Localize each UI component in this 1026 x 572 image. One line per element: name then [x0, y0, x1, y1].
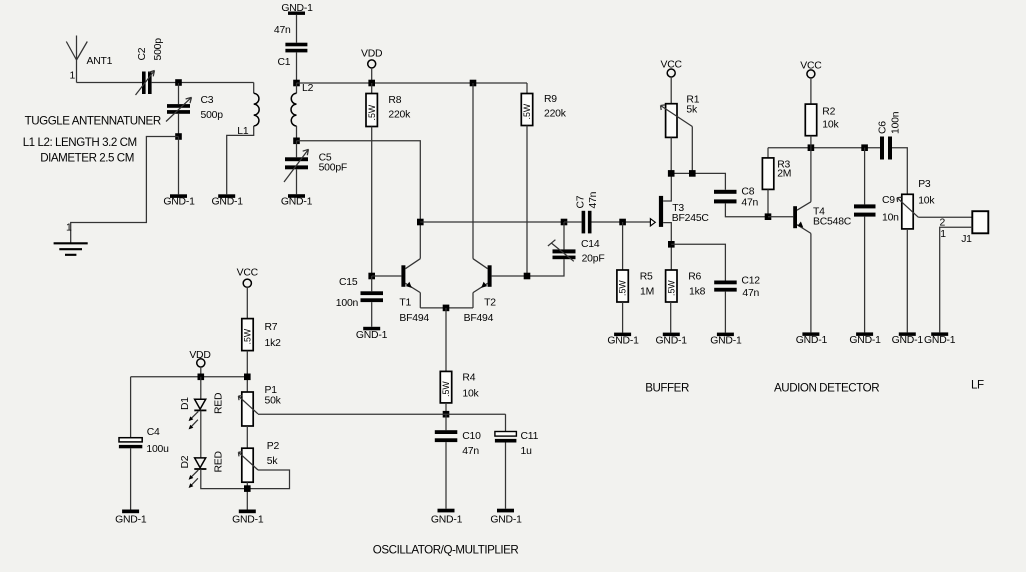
node T3 source / R6 / C12 — [668, 241, 675, 248]
node emitters / R4 — [443, 305, 450, 312]
svg-text:J1: J1 — [961, 234, 972, 245]
svg-text:5k: 5k — [686, 105, 698, 116]
svg-text:1: 1 — [66, 223, 72, 234]
svg-text:R7: R7 — [265, 322, 278, 333]
wire emitter rail — [420, 307, 473, 309]
svg-text:47n: 47n — [462, 446, 479, 457]
ground GND-1 (under C15) — [356, 327, 388, 341]
capacitor C11 1u (electrolytic) — [495, 414, 539, 457]
node T1 collector — [417, 219, 424, 226]
svg-text:C8: C8 — [741, 187, 754, 198]
svg-text:RED: RED — [214, 451, 225, 472]
wire VDD rail — [297, 82, 528, 84]
svg-text:GND-1: GND-1 — [849, 335, 881, 346]
wire T1 base — [372, 275, 402, 277]
svg-text:LF: LF — [971, 379, 984, 392]
svg-text:.5W: .5W — [618, 280, 628, 296]
ground GND-1 (under C10) — [431, 509, 463, 526]
svg-text:1: 1 — [940, 229, 946, 240]
wire VDD row to C4 — [130, 377, 132, 438]
capacitor C7 47n — [564, 191, 599, 233]
svg-text:10k: 10k — [462, 389, 479, 400]
capacitor C15 100n — [336, 276, 383, 309]
svg-text:R8: R8 — [388, 95, 401, 106]
connector J1 — [940, 211, 989, 245]
ground GND-1 (under C11) — [490, 509, 522, 526]
resistor R9 220k — [521, 83, 566, 126]
svg-text:220k: 220k — [388, 110, 411, 121]
svg-text:100u: 100u — [146, 444, 169, 455]
wire C6 to P3 — [892, 148, 907, 195]
wire L1 to GND — [227, 126, 254, 194]
svg-text:GND-1: GND-1 — [115, 515, 147, 526]
svg-text:R9: R9 — [544, 94, 557, 105]
svg-text:C15: C15 — [339, 277, 358, 288]
wire J1 pin1 to GND — [940, 227, 973, 332]
svg-text:220k: 220k — [544, 109, 567, 120]
svg-text:.5W: .5W — [367, 104, 377, 120]
svg-text:TUGGLE ANTENNATUNER: TUGGLE ANTENNATUNER — [25, 115, 161, 128]
ground GND-1 (under C4) — [115, 510, 147, 526]
wire C4 to GND — [130, 448, 132, 509]
svg-text:DIAMETER 2.5 CM: DIAMETER 2.5 CM — [40, 152, 134, 165]
svg-text:1u: 1u — [521, 446, 533, 457]
wire VDD row — [131, 376, 248, 378]
resistor R2 10k — [805, 78, 839, 136]
capacitor C14 20pF (trimmer) — [548, 222, 605, 265]
wire base node to T4 — [768, 216, 793, 218]
capacitor C2 500p (variable) — [136, 38, 165, 95]
ground GND-1 (above C1, inverted) — [281, 3, 313, 15]
wire R2 to rail — [810, 136, 812, 148]
node L2/C5 — [293, 138, 300, 145]
node R3 / C8 / T4 base — [765, 213, 772, 220]
transistor T1 BF494 — [399, 259, 429, 324]
wire T2 emitter down — [472, 293, 474, 308]
node T2 collector on rail — [470, 80, 477, 87]
supply VDD (top) — [361, 49, 382, 84]
node gate / R5 — [619, 219, 626, 226]
svg-text:.5W: .5W — [242, 328, 252, 344]
svg-text:R2: R2 — [822, 107, 835, 118]
wire C1 to VDD rail — [296, 52, 298, 83]
resistor R8 220k — [366, 83, 411, 127]
transistor T4 BC548C — [793, 202, 852, 234]
wire R6 to GND — [670, 302, 672, 333]
svg-text:C11: C11 — [521, 431, 539, 442]
LED D1 RED — [180, 393, 225, 430]
svg-text:R6: R6 — [688, 272, 701, 283]
ground GND-1 (under C9) — [849, 332, 881, 346]
LED D2 RED — [180, 451, 225, 488]
svg-text:L1 L2: LENGTH 3.2 CM: L1 L2: LENGTH 3.2 CM — [23, 136, 137, 149]
svg-text:D1: D1 — [180, 397, 191, 410]
svg-text:C4: C4 — [147, 427, 160, 438]
capacitor C12 47n — [714, 276, 760, 300]
capacitor C8 47n — [714, 187, 759, 209]
wire C15 to GND — [371, 302, 373, 327]
supply VCC (buffer) — [661, 60, 683, 78]
svg-text:P2: P2 — [267, 441, 280, 452]
svg-text:L2: L2 — [302, 83, 314, 94]
wire C5 to GND — [296, 169, 298, 194]
wire P2 bottom to GND — [246, 482, 248, 509]
wire C9 to GND — [864, 217, 866, 333]
svg-text:C3: C3 — [201, 95, 214, 106]
wire P2 wiper return — [248, 470, 290, 489]
supply VCC (audion) — [800, 60, 822, 78]
svg-text:C10: C10 — [462, 431, 481, 442]
ground GND-1 (under C3) — [163, 194, 195, 207]
svg-text:RED: RED — [214, 393, 225, 414]
node R4/C10/wiper — [443, 411, 450, 418]
wire C7 to T3 gate — [592, 221, 651, 223]
earth ground — [54, 243, 88, 255]
wire node B to earth — [71, 137, 179, 244]
capacitor C6 100n — [878, 111, 902, 159]
svg-text:C14: C14 — [581, 239, 600, 250]
svg-text:500pF: 500pF — [319, 163, 347, 174]
capacitor C1 47n — [274, 25, 308, 68]
svg-text:GND-1: GND-1 — [212, 197, 244, 208]
svg-text:AUDION DETECTOR: AUDION DETECTOR — [774, 382, 879, 395]
node VDD/R7/P1 — [244, 374, 251, 381]
wire R1 bottom / wiper to drain node — [671, 127, 725, 190]
potentiometer P2 5k — [238, 441, 279, 482]
svg-text:GND-1: GND-1 — [892, 335, 924, 346]
svg-text:BF245C: BF245C — [672, 213, 710, 224]
svg-text:BC548C: BC548C — [813, 216, 852, 227]
inductor L1 — [237, 83, 259, 138]
capacitor C5 500pF (variable) — [284, 141, 347, 182]
wire P3 wiper to J1 pin2 — [918, 216, 972, 218]
transistor T3 BF245C (JFET) — [650, 173, 709, 244]
svg-text:GND-1: GND-1 — [356, 330, 388, 341]
svg-text:47n: 47n — [742, 288, 759, 299]
ground GND-1 (under C5) — [281, 194, 313, 207]
antenna ANT1 — [66, 36, 112, 83]
svg-text:R5: R5 — [640, 272, 653, 283]
inductor L2 — [291, 83, 314, 141]
svg-text:1k8: 1k8 — [689, 287, 706, 298]
node R2 / T4 collector — [808, 144, 815, 151]
wire D1 to D2 — [200, 410, 202, 458]
svg-text:10n: 10n — [882, 213, 899, 224]
svg-text:GND-1: GND-1 — [232, 515, 264, 526]
ground GND-1 (under R6) — [656, 333, 688, 347]
svg-text:.5W: .5W — [441, 381, 451, 397]
svg-text:.5W: .5W — [522, 103, 532, 119]
wire audion rail — [768, 147, 880, 149]
resistor R6 1k8 — [666, 244, 706, 302]
svg-text:GND-1: GND-1 — [656, 336, 688, 347]
svg-text:C6: C6 — [878, 121, 889, 134]
svg-text:GND-1: GND-1 — [796, 335, 828, 346]
svg-text:GND-1: GND-1 — [490, 515, 522, 526]
wire T4 collector up — [810, 148, 812, 202]
node A (C2/C3/L1) — [175, 79, 182, 86]
svg-text:.5W: .5W — [666, 280, 676, 296]
svg-text:VCC: VCC — [800, 60, 822, 71]
svg-text:C12: C12 — [741, 276, 760, 287]
capacitor C10 47n — [435, 414, 481, 457]
wire R4 bottom — [445, 403, 447, 414]
node VDD stem / R8 — [368, 80, 375, 87]
svg-text:1: 1 — [70, 71, 76, 82]
wire wiper rail P1 to R4 node — [258, 413, 506, 415]
svg-text:47n: 47n — [588, 191, 599, 208]
svg-text:50k: 50k — [265, 396, 282, 407]
svg-text:GND-1: GND-1 — [163, 197, 195, 208]
node C1/L2 — [293, 80, 300, 87]
svg-text:10k: 10k — [822, 120, 839, 131]
wire P1 to P2 — [246, 426, 248, 448]
wire C10 to GND — [445, 442, 447, 509]
wire D2 to bottom node — [201, 469, 248, 489]
ground GND-1 (under R5) — [607, 333, 639, 347]
svg-text:100n: 100n — [336, 298, 359, 309]
wire T2 collector to VDD rail — [472, 83, 474, 259]
svg-text:VDD: VDD — [189, 350, 210, 361]
wire R7 to VDD row — [246, 351, 248, 392]
capacitor C3 500p (variable) — [166, 83, 223, 122]
wire R8 to T1 base node — [371, 127, 373, 277]
svg-text:GND-1: GND-1 — [431, 515, 463, 526]
svg-text:500p: 500p — [201, 110, 224, 121]
svg-text:C2: C2 — [137, 47, 148, 60]
node T2 base / R9 — [524, 273, 531, 280]
svg-text:5k: 5k — [267, 456, 279, 467]
wire P3 bottom to GND — [906, 229, 908, 333]
potentiometer P3 10k — [897, 179, 935, 229]
resistor R7 1k2 — [242, 287, 281, 351]
node C9 top — [861, 144, 868, 151]
wire T1 emitter down — [419, 293, 421, 308]
svg-text:VDD: VDD — [361, 49, 382, 60]
ground GND-1 (under P2) — [232, 510, 264, 526]
svg-text:C7: C7 — [576, 195, 587, 208]
supply VDD (bottom) — [189, 350, 210, 377]
wire C2 to node A — [152, 82, 254, 84]
svg-text:2M: 2M — [777, 169, 791, 180]
svg-text:10k: 10k — [918, 196, 935, 207]
svg-text:OSCILLATOR/Q-MULTIPLIER: OSCILLATOR/Q-MULTIPLIER — [373, 544, 519, 557]
wire cross-coupling y222 — [420, 221, 564, 223]
potentiometer P1 50k — [238, 385, 281, 426]
wire source to C12 — [671, 244, 725, 280]
svg-text:R4: R4 — [462, 373, 475, 384]
svg-text:ANT1: ANT1 — [87, 56, 113, 67]
svg-text:P1: P1 — [265, 385, 278, 396]
wire C3 to node B — [178, 114, 180, 137]
svg-text:T1: T1 — [399, 298, 411, 309]
node B (C3 bottom) — [175, 133, 182, 140]
svg-text:C1: C1 — [278, 57, 291, 68]
svg-text:20pF: 20pF — [582, 254, 605, 265]
node R1 bottom — [668, 170, 675, 177]
wire R3 bottom to base node — [767, 189, 769, 216]
wire R9 to T2 base node — [526, 126, 528, 277]
node VDD/D1 — [198, 374, 205, 381]
wire GND to C1 — [296, 15, 298, 43]
svg-text:T2: T2 — [484, 298, 496, 309]
potentiometer R1 5k — [661, 77, 700, 138]
svg-text:1M: 1M — [640, 287, 654, 298]
svg-text:47n: 47n — [741, 198, 758, 209]
wire C12 to GND — [724, 292, 726, 333]
wire C11 to GND — [505, 443, 507, 509]
ground GND-1 (under P3) — [892, 332, 924, 346]
wire T4 emitter to GND — [810, 233, 812, 332]
svg-text:VCC: VCC — [237, 267, 259, 278]
resistor R3 2M — [762, 148, 791, 190]
wire VDD to D1 — [200, 377, 202, 400]
ground GND-1 (under C12) — [710, 333, 742, 347]
wire C8 to T4 base row — [725, 203, 768, 216]
svg-text:1k2: 1k2 — [265, 338, 282, 349]
transistor T2 BF494 — [464, 259, 497, 324]
node P2/D2 bottom — [244, 485, 251, 492]
svg-text:500p: 500p — [153, 38, 164, 61]
wire node B down to GND — [178, 137, 180, 195]
wire T1 collector up — [419, 222, 421, 259]
svg-text:100n: 100n — [891, 111, 902, 134]
svg-text:D2: D2 — [180, 455, 191, 468]
wire tank to T1 collector — [297, 141, 421, 222]
ground GND-1 (under J1) — [924, 332, 956, 346]
wire R5 to GND — [622, 302, 624, 333]
wire T2 base to C14 bottom — [492, 259, 564, 276]
resistor R4 10k — [440, 308, 479, 403]
wire antenna to C2 — [77, 82, 143, 84]
svg-text:BF494: BF494 — [399, 313, 429, 324]
svg-text:GND-1: GND-1 — [607, 336, 639, 347]
node T1 base / C15 / R8 — [368, 273, 375, 280]
ground GND-1 (under T4) — [796, 332, 828, 346]
node R1 wiper — [689, 170, 696, 177]
capacitor C4 100u (electrolytic) — [119, 427, 169, 455]
svg-text:GND-1: GND-1 — [281, 197, 313, 208]
svg-text:C9: C9 — [882, 195, 895, 206]
svg-text:GND-1: GND-1 — [710, 336, 742, 347]
svg-text:BUFFER: BUFFER — [645, 382, 689, 395]
svg-text:P3: P3 — [918, 179, 931, 190]
svg-text:GND-1: GND-1 — [924, 335, 956, 346]
svg-text:BF494: BF494 — [464, 313, 494, 324]
node C14 top — [561, 219, 568, 226]
capacitor C9 10n — [854, 148, 899, 224]
supply VCC (oscillator) — [237, 267, 259, 287]
svg-text:47n: 47n — [274, 25, 291, 36]
ground GND-1 (under L1) — [212, 194, 244, 207]
resistor R5 1M — [617, 222, 654, 302]
svg-text:VCC: VCC — [661, 60, 683, 71]
